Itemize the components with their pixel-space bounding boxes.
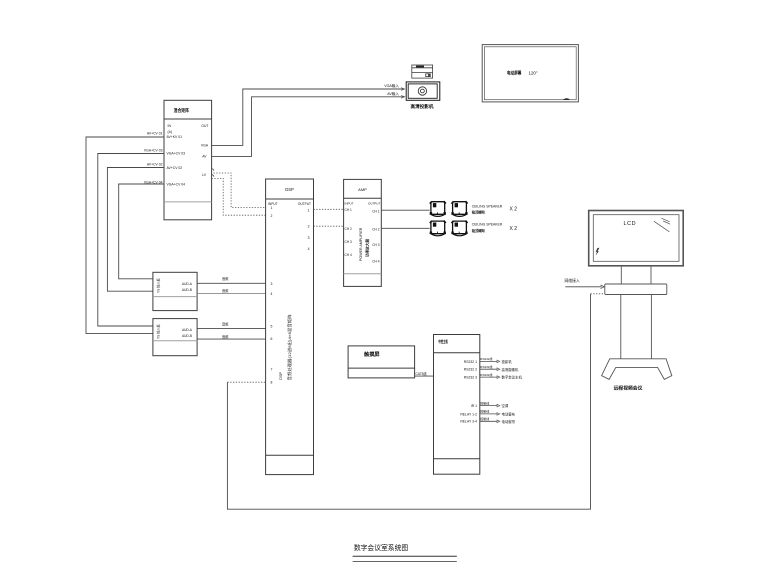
svg-text:中控主机: 中控主机 [438, 338, 448, 344]
network arrow [565, 286, 602, 288]
AMP output channel labels [372, 209, 379, 263]
mic panel 2 box [153, 319, 197, 356]
svg-text:4: 4 [271, 292, 273, 296]
svg-text:INPUT: INPUT [345, 202, 354, 206]
DSP box [266, 179, 314, 475]
svg-text:高清摄像机: 高清摄像机 [502, 367, 520, 372]
svg-text:投影机: 投影机 [502, 359, 513, 364]
svg-text:AV+CV 02: AV+CV 02 [167, 166, 183, 170]
svg-text:X 2: X 2 [510, 226, 518, 232]
cart poles lower [621, 295, 652, 359]
IR-1 wire to aircon [480, 400, 509, 408]
ceiling speaker 4 [451, 221, 467, 236]
svg-text:电动屏幕: 电动屏幕 [507, 69, 522, 76]
svg-text:INPUT: INPUT [268, 202, 278, 206]
dashed wire LV to DSP input1 [214, 173, 266, 208]
svg-text:3: 3 [308, 236, 310, 240]
power amplifier box [344, 179, 382, 286]
screen corner mark [563, 98, 570, 99]
svg-text:OUTPUT: OUTPUT [368, 202, 381, 206]
svg-text:2: 2 [308, 224, 310, 228]
svg-text:触摸屏: 触摸屏 [363, 350, 380, 358]
svg-text:CH 4: CH 4 [345, 253, 352, 257]
svg-text:8: 8 [271, 381, 273, 385]
ceiling speaker 1 [430, 201, 446, 216]
svg-text:AV+KV 01: AV+KV 01 [167, 135, 183, 139]
svg-text:电动幕布: 电动幕布 [502, 412, 516, 417]
svg-text:AUD-A: AUD-A [182, 328, 193, 332]
title underline double [353, 555, 457, 557]
wire AV out to projector [212, 97, 405, 157]
matrix input wire labels [144, 131, 163, 184]
mic panel 1 port labels [182, 282, 193, 292]
svg-text:音频: 音频 [222, 334, 229, 339]
projector ceiling plate [412, 65, 433, 78]
cart poles upper [621, 266, 651, 284]
cart monitor [589, 211, 684, 266]
svg-text:音频处理器(12进8出)4×8混音矩阵: 音频处理器(12进8出)4×8混音矩阵 [286, 315, 292, 381]
svg-text:电动窗帘: 电动窗帘 [502, 419, 516, 424]
RELAY 3-4 wire to curtain [480, 416, 516, 424]
svg-text:4: 4 [308, 247, 310, 251]
svg-text:RS232 3: RS232 3 [464, 376, 477, 380]
svg-text:数字会议室系统图: 数字会议室系统图 [354, 543, 409, 552]
svg-text:LCD: LCD [624, 221, 637, 227]
svg-text:RS232 2: RS232 2 [464, 368, 477, 372]
matrix pin labels inside [167, 124, 209, 187]
svg-text:VGA输入: VGA输入 [384, 83, 399, 88]
mic panel 1 output wires to DSP [197, 282, 266, 284]
wire VGA+CV 04 (matrix to mic panel 1 upper) [119, 184, 164, 279]
cart shelf [605, 284, 667, 295]
svg-text:RS232线: RS232线 [480, 364, 492, 369]
arrowhead AV input [401, 95, 405, 98]
central controller box [434, 335, 480, 475]
svg-text:控制线: 控制线 [480, 400, 489, 405]
AMP input channel labels [345, 208, 352, 257]
wire AV+CV 02 (matrix to mic panel 1 lower) [107, 168, 164, 292]
svg-text:CH 3: CH 3 [345, 240, 352, 244]
mic panel 2 port labels [182, 328, 193, 338]
svg-text:VGA+CV 03: VGA+CV 03 [167, 152, 186, 156]
dashed wire into cart shelf [591, 293, 605, 295]
svg-text:RELAY 3-4: RELAY 3-4 [460, 420, 477, 424]
svg-text:远程视频会议: 远程视频会议 [614, 385, 643, 392]
svg-text:控制线: 控制线 [480, 409, 489, 414]
svg-text:高清投影机: 高清投影机 [411, 103, 434, 110]
wire AMP CH1 to speakers row1 [381, 209, 429, 211]
cart base [602, 359, 672, 380]
dashed wire into DSP input 8 [227, 381, 265, 383]
LV pin tick marks [212, 169, 214, 177]
svg-text:VGA+CV 04: VGA+CV 04 [167, 183, 186, 187]
svg-text:AV输入: AV输入 [387, 91, 399, 96]
svg-text:RELAY 1-2: RELAY 1-2 [460, 412, 477, 416]
wire VGA+CV 03 (matrix to mic panel 2 upper) [98, 154, 164, 327]
svg-text:2: 2 [271, 214, 273, 218]
svg-text:6: 6 [271, 337, 273, 341]
svg-text:音频: 音频 [222, 276, 229, 281]
svg-text:VGA: VGA [201, 144, 209, 148]
svg-text:AUD-A: AUD-A [182, 282, 193, 286]
svg-text:1: 1 [271, 206, 273, 210]
svg-text:OUTPUT: OUTPUT [298, 202, 311, 206]
svg-text:CEILING SPEAKER: CEILING SPEAKER [472, 204, 503, 208]
dashed wire DSP out2 to AMP CH2 [314, 225, 344, 227]
svg-text:CH 3: CH 3 [372, 243, 379, 247]
svg-text:YS 输入板: YS 输入板 [156, 277, 161, 293]
svg-text:7: 7 [271, 368, 273, 372]
RELAY 1-2 wire to screen [480, 409, 516, 417]
bottom link wire [227, 294, 590, 509]
svg-text:吸顶喇叭: 吸顶喇叭 [472, 209, 486, 214]
svg-text:DSP: DSP [279, 372, 283, 380]
svg-text:功率放大器: 功率放大器 [365, 239, 370, 257]
svg-text:数字会议主机: 数字会议主机 [502, 375, 523, 380]
svg-text:120": 120" [529, 70, 538, 75]
svg-text:控制线: 控制线 [480, 416, 489, 421]
svg-text:RS232线: RS232线 [480, 356, 492, 361]
svg-text:CEILING SPEAKER: CEILING SPEAKER [472, 222, 503, 226]
wire AV+CV 01 (matrix to mic panel 2 lower) [86, 137, 164, 333]
matrix switcher box [164, 100, 212, 220]
wire AMP CH2 to speakers row2 [381, 227, 429, 229]
power bolt [596, 248, 600, 256]
DSP output numbers [308, 209, 310, 251]
svg-text:AV+CV 02: AV+CV 02 [147, 162, 163, 166]
svg-text:AV: AV [202, 155, 207, 159]
touch panel box [348, 346, 415, 378]
svg-text:RS232 1: RS232 1 [464, 360, 477, 364]
svg-text:5: 5 [271, 325, 273, 329]
RS232-2 wire to camera [480, 364, 519, 372]
svg-text:CH 1: CH 1 [345, 208, 352, 212]
svg-text:音频: 音频 [222, 288, 229, 293]
svg-text:LV: LV [202, 173, 207, 177]
svg-text:CH 2: CH 2 [345, 227, 352, 231]
svg-text:X 2: X 2 [510, 207, 518, 213]
RS232-3 wire to conference host [480, 372, 523, 380]
svg-text:IN: IN [168, 124, 172, 128]
svg-text:混合矩阵: 混合矩阵 [174, 107, 190, 114]
svg-text:音频: 音频 [222, 321, 229, 326]
svg-text:(A): (A) [168, 130, 173, 134]
projector body [406, 82, 440, 100]
svg-text:VGA+CV 03: VGA+CV 03 [144, 149, 163, 153]
ceiling speaker 2 [451, 201, 467, 216]
wire touch panel to controller [415, 375, 434, 377]
svg-text:AV+CV 01: AV+CV 01 [147, 131, 163, 135]
ceiling speaker 3 [430, 221, 446, 236]
wire VGA out to projector [212, 89, 405, 145]
svg-text:吸顶喇叭: 吸顶喇叭 [472, 228, 486, 233]
svg-text:OUT: OUT [201, 124, 208, 128]
projector lens [418, 87, 426, 95]
svg-text:空调: 空调 [502, 403, 509, 408]
svg-text:网络接入: 网络接入 [565, 278, 580, 283]
electric screen box [482, 45, 578, 102]
arrowhead VGA input [401, 88, 405, 91]
mic panel 2 output wires to DSP [197, 328, 266, 330]
svg-text:IR 1: IR 1 [471, 404, 477, 408]
svg-text:CH 4: CH 4 [372, 260, 379, 264]
svg-text:RS232线: RS232线 [480, 372, 492, 377]
screen glare lines [654, 218, 670, 232]
DSP input numbers [271, 206, 273, 384]
svg-text:CH 1: CH 1 [372, 209, 379, 213]
svg-text:AMP: AMP [358, 187, 367, 192]
svg-text:CAT5线: CAT5线 [416, 371, 428, 376]
RS232-1 wire to projector [480, 356, 512, 364]
svg-text:AUD-B: AUD-B [182, 288, 192, 292]
dashed wire LV to DSP input2 [212, 178, 266, 215]
svg-text:CH 2: CH 2 [372, 227, 379, 231]
svg-text:POWER AMPLIFIER: POWER AMPLIFIER [359, 227, 363, 261]
svg-text:AUD-B: AUD-B [182, 334, 192, 338]
svg-text:YS 输入板: YS 输入板 [156, 323, 161, 339]
svg-text:DSP: DSP [285, 187, 294, 192]
svg-text:1: 1 [308, 209, 310, 213]
mic panel 1 box [153, 272, 197, 310]
svg-text:3: 3 [271, 282, 273, 286]
controller port labels [460, 360, 477, 424]
dashed wire DSP out1 to AMP CH1 [314, 208, 344, 210]
